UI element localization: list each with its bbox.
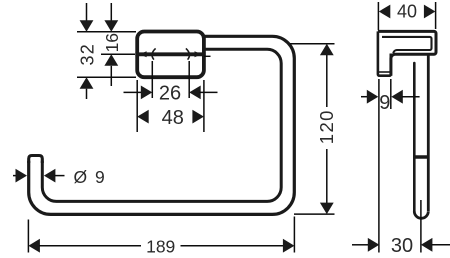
svg-text:26: 26 (159, 83, 181, 105)
side view wall plate (378, 31, 391, 75)
screw arc left (152, 48, 156, 59)
screw arc right (186, 48, 190, 59)
ext line block mid (101, 53, 135, 55)
dim 40 arrow right (424, 5, 436, 19)
dim 120 line upper (326, 55, 328, 107)
dim dia9 arrow left (16, 169, 28, 183)
ring open-end cap (29, 156, 43, 164)
side view plate inner bottom line (379, 71, 391, 73)
dim 48 arrow left (137, 110, 149, 124)
dim 48 arrow right (192, 110, 204, 124)
dim 30 line right (432, 244, 450, 246)
ext line screw left (151, 61, 153, 98)
dim 9 line left (361, 96, 369, 98)
dim 120 line lower (326, 149, 328, 203)
dim 30 arrow left (368, 238, 380, 252)
block mid line (135, 52, 205, 56)
dim 26 line right (200, 91, 218, 93)
wall block (137, 32, 204, 78)
dim 30 line left (352, 244, 368, 246)
dim dia9 line left (13, 175, 18, 177)
dim dia9 leader (55, 175, 65, 177)
dim 16 arrow top (104, 20, 118, 32)
side view bar open-end edge (413, 155, 429, 158)
ext line tube center (420, 200, 422, 253)
svg-text:120: 120 (316, 109, 337, 144)
dim dia9 arrow right (44, 169, 56, 183)
ext line 120 bottom (294, 213, 335, 215)
ext line 120 top (290, 43, 335, 45)
svg-text:16: 16 (102, 33, 122, 52)
svg-text:30: 30 (391, 235, 413, 257)
svg-text:Ø: Ø (74, 167, 88, 187)
dim 189 line right (181, 245, 285, 247)
svg-text:40: 40 (397, 2, 417, 22)
dim 30 arrow right (421, 238, 433, 252)
ext line 40 left (377, 2, 379, 30)
ext line 48 right (203, 80, 205, 132)
dim 9 line right (402, 96, 420, 98)
svg-text:9: 9 (379, 92, 390, 114)
dim 26 arrow right (189, 86, 201, 100)
dim 189 arrow left (28, 239, 40, 253)
dim 120 arrow bottom (320, 203, 334, 215)
dim 16 arrow bottom (104, 54, 118, 66)
dim 32 line bottom (86, 89, 88, 99)
ring outer contour (29, 36, 295, 214)
dim 16 line top (110, 3, 112, 21)
ext line block bottom (77, 76, 136, 78)
mid line arrowhead right (195, 51, 202, 57)
dim 32 arrow top (80, 20, 94, 32)
dim 120 arrow top (320, 44, 334, 56)
ext line block top (77, 31, 136, 33)
dim 32 line top (86, 3, 88, 21)
ext line 189 right (293, 217, 295, 253)
mid line arrowhead left (139, 51, 146, 57)
dim 189 line left (39, 245, 141, 247)
side view bar tube left line (413, 63, 416, 211)
ext line 189 left (27, 220, 29, 253)
dim 40 arrow left (379, 5, 391, 19)
dim 189 arrow right (283, 239, 295, 253)
ext line screw right (188, 61, 190, 98)
dim 32 arrow bottom (80, 77, 94, 89)
dim 26 line left (124, 91, 143, 93)
ext line 48 left (136, 80, 138, 132)
side view arm outline (378, 31, 436, 75)
dim 9 arrow right (391, 90, 403, 104)
svg-text:189: 189 (146, 237, 175, 257)
dim 9 arrow left (367, 90, 379, 104)
dim 26 arrow left (141, 86, 153, 100)
mid line stub right (204, 55, 211, 57)
svg-text:32: 32 (77, 43, 97, 66)
ext line wall 9 left (378, 79, 380, 253)
side view bar tube right line (427, 55, 430, 211)
svg-text:48: 48 (162, 107, 184, 129)
dim 16 line bottom (110, 66, 112, 86)
ext line 40 right (435, 2, 437, 29)
ring inner contour (42, 49, 281, 201)
ext line 9 right (390, 79, 392, 109)
side view bar tube bottom cap (414, 211, 428, 218)
side view arm inner top line (382, 37, 432, 53)
svg-text:9: 9 (95, 167, 105, 187)
